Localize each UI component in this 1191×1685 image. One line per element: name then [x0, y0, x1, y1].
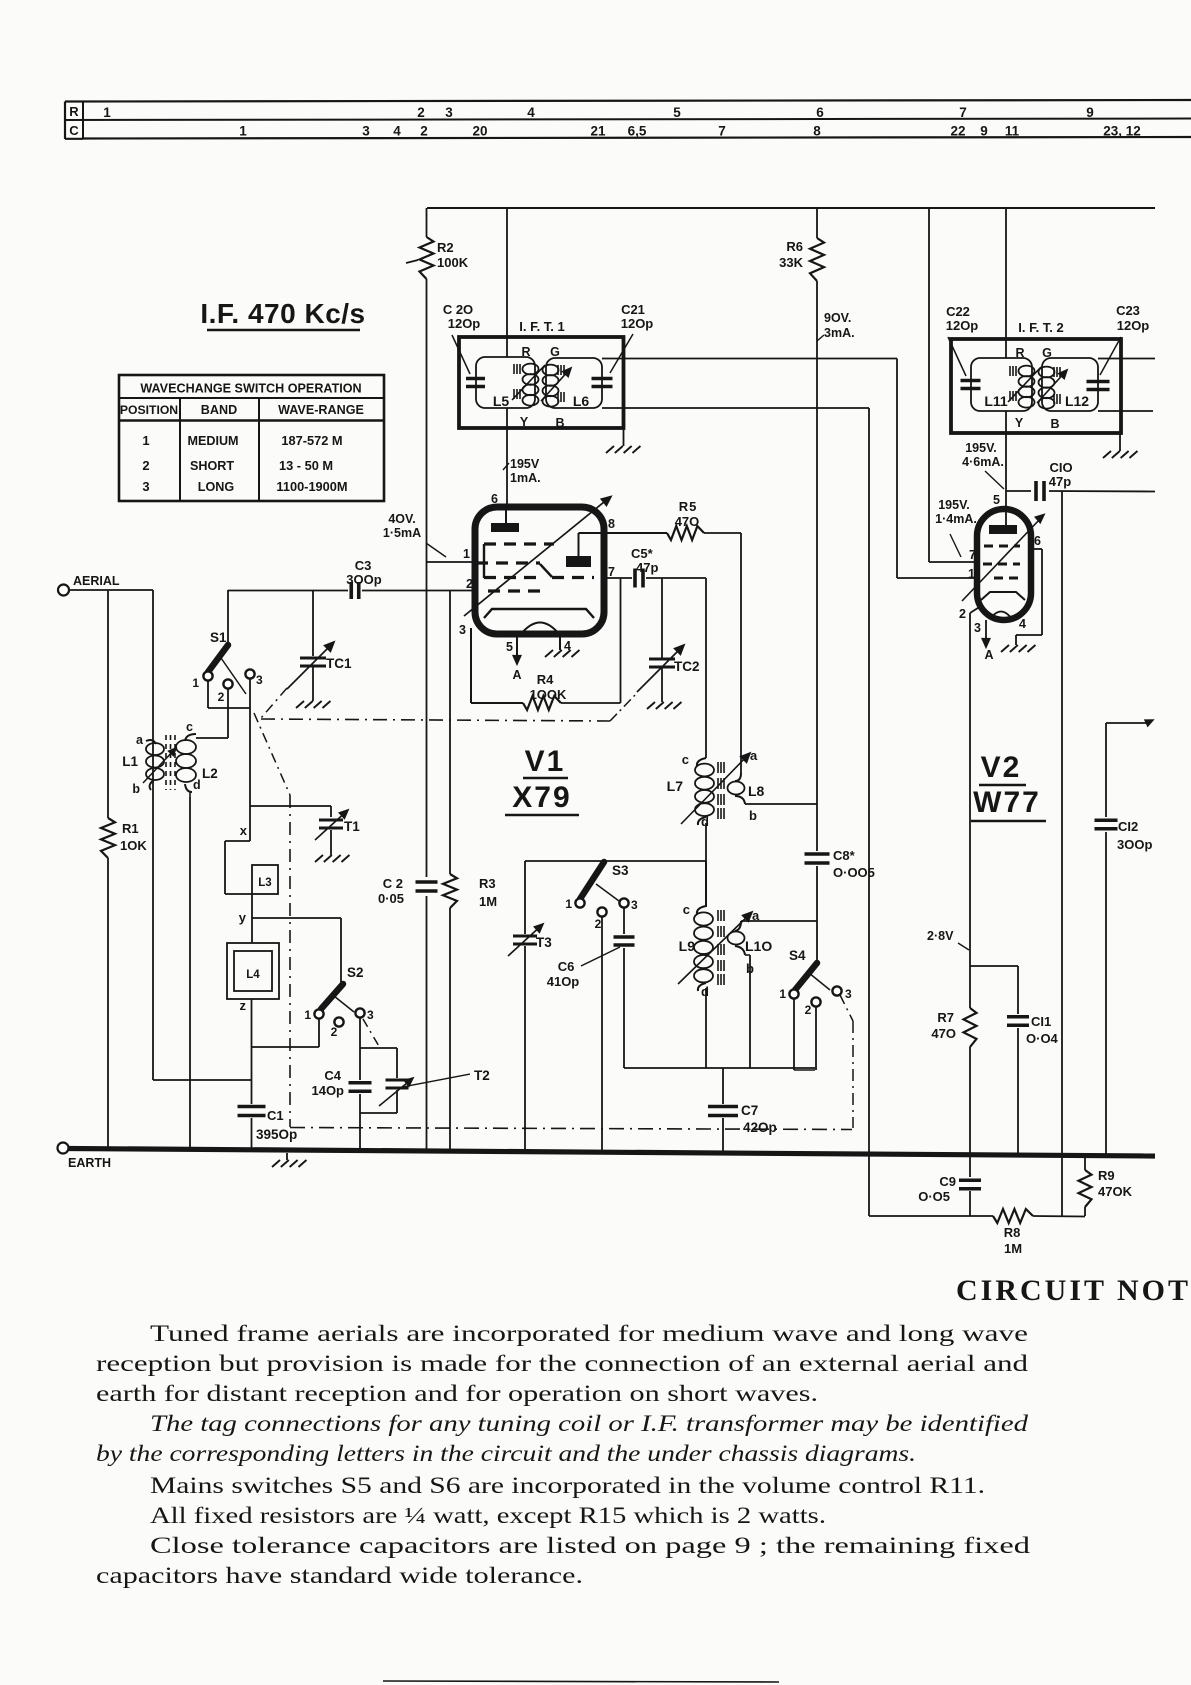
label C12 300p [1117, 819, 1152, 852]
coil L12 box [1042, 358, 1098, 411]
strip R row numbers [103, 105, 1094, 120]
svg-text:C9: C9 [939, 1174, 956, 1189]
wire R4 right leg [561, 578, 621, 703]
svg-text:47O: 47O [931, 1026, 956, 1041]
svg-text:1M: 1M [479, 894, 497, 909]
label A below V1 [512, 668, 521, 682]
svg-text:C23: C23 [1116, 303, 1140, 318]
capacitor C11 branch [970, 966, 1029, 1155]
svg-text:CI2: CI2 [1118, 819, 1138, 834]
svg-text:LONG: LONG [198, 480, 235, 494]
V1 pin5 stub with arrow [513, 634, 520, 664]
svg-text:4OV.: 4OV. [388, 512, 415, 526]
wire V2 cathode down [970, 606, 981, 1155]
svg-text:A: A [984, 648, 993, 662]
svg-text:WAVECHANGE SWITCH OPERATION: WAVECHANGE SWITCH OPERATION [140, 382, 361, 396]
coil L11 box [971, 358, 1032, 411]
T1 ground [315, 855, 349, 863]
switch S2 [314, 984, 364, 1027]
trimmer TC2 [637, 578, 684, 702]
label EARTH [68, 1156, 111, 1170]
svg-text:47O: 47O [675, 514, 700, 529]
svg-text:L7: L7 [667, 778, 684, 794]
capacitor C23 [1087, 382, 1110, 390]
svg-text:20: 20 [472, 124, 487, 139]
wire L12 to right edge top [1098, 358, 1155, 360]
label pin 6 of V1 [491, 492, 498, 506]
svg-text:9OV.: 9OV. [824, 311, 851, 325]
svg-text:C6: C6 [558, 959, 575, 974]
labels V1 pins [459, 517, 615, 654]
svg-text:a: a [750, 748, 758, 763]
wire AGC line [602, 408, 869, 1216]
svg-text:C 2O: C 2O [443, 302, 473, 317]
label R3 1M [479, 876, 497, 909]
capacitor C8 [805, 854, 830, 863]
wire R6/C8 vertical [816, 208, 818, 963]
label R4 100K [530, 672, 567, 702]
valve V1 envelope [475, 507, 604, 634]
svg-text:earth for distant reception an: earth for distant reception and for oper… [96, 1381, 818, 1407]
coil L9 [694, 861, 713, 1068]
svg-text:2: 2 [142, 458, 149, 473]
svg-text:1: 1 [463, 547, 470, 561]
page bottom edge line [383, 1681, 779, 1682]
wire R5 to L8 [704, 533, 741, 773]
capacitor C6 [614, 937, 635, 945]
wire L6 to V2 pin1 [602, 359, 977, 579]
svg-text:3: 3 [974, 621, 981, 635]
svg-text:12Op: 12Op [621, 316, 654, 331]
svg-text:5: 5 [993, 493, 1000, 507]
svg-text:S3: S3 [612, 863, 629, 878]
IFT2 ground [1103, 433, 1137, 459]
svg-text:23, 12: 23, 12 [1103, 124, 1141, 139]
IFT1 tuning arrows [512, 365, 571, 401]
svg-text:12Op: 12Op [1117, 318, 1150, 333]
label C11 0.04 [1026, 1014, 1059, 1046]
earth ground symbol [272, 1153, 306, 1168]
svg-text:4: 4 [393, 124, 401, 139]
labels L9 L10 a b c d [679, 902, 773, 999]
strip row label R [69, 104, 79, 119]
svg-text:7: 7 [718, 124, 726, 139]
svg-text:L3: L3 [258, 877, 271, 889]
svg-text:2: 2 [420, 124, 428, 139]
heading CIRCUIT NOTES [956, 1274, 1191, 1307]
svg-text:R9: R9 [1098, 1168, 1115, 1183]
label TC1 [326, 656, 352, 671]
wire grid line to V1 [228, 590, 475, 592]
wire y [252, 894, 341, 918]
svg-text:MEDIUM: MEDIUM [187, 434, 238, 448]
label L5 [493, 393, 510, 409]
svg-text:L1: L1 [122, 754, 138, 769]
svg-text:c: c [682, 752, 689, 767]
svg-text:12Op: 12Op [946, 318, 979, 333]
svg-text:G: G [550, 345, 560, 359]
wire V1 pin1 [427, 561, 476, 563]
resistor R7 [964, 1008, 977, 1047]
label 195V 4.6mA [962, 441, 1004, 489]
svg-text:POSITION: POSITION [120, 403, 178, 417]
svg-text:Close tolerance capacitors are: Close tolerance capacitors are listed on… [150, 1533, 1030, 1559]
coil L6 box [546, 358, 602, 408]
labels IFT2 R G Y B [1015, 346, 1060, 431]
svg-text:B: B [1050, 417, 1059, 431]
label 195V 1.4mA [935, 498, 977, 557]
capacitor C10 [1036, 481, 1044, 501]
wire S4 pin1 down [794, 999, 815, 1070]
svg-text:3: 3 [845, 987, 852, 1001]
L1 L2 core [166, 735, 175, 790]
svg-text:TC1: TC1 [326, 656, 352, 671]
TC1 ground [296, 701, 330, 709]
label C22 120p [946, 304, 979, 376]
svg-text:I. F. T. 2: I. F. T. 2 [1018, 320, 1064, 335]
svg-text:C: C [69, 123, 79, 138]
label C21 120p [610, 302, 653, 373]
TC2 ground [647, 702, 681, 710]
svg-text:1·4mA.: 1·4mA. [935, 512, 977, 526]
svg-text:1: 1 [565, 897, 572, 911]
label x [240, 823, 248, 838]
coil L7 [695, 758, 714, 861]
svg-text:6: 6 [816, 105, 824, 120]
notes paragraph 3 [150, 1473, 985, 1499]
label C8* 0.005 [833, 848, 875, 880]
svg-text:12Op: 12Op [448, 316, 481, 331]
svg-text:x: x [240, 823, 248, 838]
svg-text:R: R [69, 104, 79, 119]
wire L4 to C1 [251, 999, 253, 1104]
wire x step to L3 [225, 841, 252, 894]
svg-text:c: c [683, 902, 690, 917]
labels S3 1 2 3 [565, 863, 638, 931]
svg-text:d: d [701, 814, 709, 829]
svg-text:2: 2 [805, 1003, 812, 1017]
IFT1 windings [514, 364, 564, 407]
svg-text:Y: Y [1015, 416, 1024, 430]
V1 pin4 ground [545, 634, 579, 658]
svg-text:195V.: 195V. [965, 441, 997, 455]
svg-text:6: 6 [1034, 534, 1041, 548]
svg-text:SHORT: SHORT [190, 459, 234, 473]
svg-text:R1: R1 [122, 821, 139, 836]
label C3 300p [346, 558, 381, 587]
svg-text:2: 2 [466, 577, 473, 591]
label AERIAL [73, 574, 120, 588]
label L12 [1065, 393, 1089, 409]
svg-text:3: 3 [142, 479, 149, 494]
svg-text:R4: R4 [537, 672, 554, 687]
wire C6 to box bottom [624, 948, 815, 1068]
svg-text:21: 21 [590, 124, 606, 139]
wire HT top rail [427, 207, 1155, 209]
svg-text:CIO: CIO [1049, 460, 1072, 475]
label V2 W77 [971, 751, 1046, 821]
notes paragraph 5 [96, 1533, 1030, 1589]
svg-text:5: 5 [673, 105, 681, 120]
L9 core ticks [718, 910, 724, 985]
svg-text:G: G [1042, 346, 1052, 360]
label 40V 1.5mA [383, 512, 446, 557]
svg-text:C7: C7 [741, 1103, 758, 1118]
svg-text:W77: W77 [973, 786, 1041, 819]
label R8 1M [1004, 1225, 1022, 1256]
svg-text:C5*: C5* [631, 546, 654, 561]
svg-text:TC2: TC2 [674, 659, 700, 674]
svg-text:195V: 195V [510, 457, 540, 471]
coil L4 frame [227, 918, 279, 999]
svg-text:C4: C4 [324, 1068, 341, 1083]
svg-text:47OK: 47OK [1098, 1184, 1133, 1199]
svg-text:reception but provision is mad: reception but provision is made for the … [96, 1351, 1028, 1377]
svg-text:7: 7 [969, 548, 976, 562]
resistor R8 [993, 1209, 1033, 1223]
svg-text:0·05: 0·05 [378, 891, 404, 906]
svg-text:1M: 1M [1004, 1241, 1022, 1256]
S2 gang dash to T2 [363, 1019, 380, 1048]
svg-text:33K: 33K [779, 255, 803, 270]
svg-text:1: 1 [142, 433, 149, 448]
wire S2 pin1 down [252, 1019, 320, 1047]
resistor R4 [523, 696, 561, 710]
capacitor C2 [416, 882, 438, 891]
svg-text:WAVE-RANGE: WAVE-RANGE [278, 403, 364, 417]
svg-text:3OOp: 3OOp [1117, 837, 1152, 852]
coil L8 [728, 773, 818, 804]
svg-text:y: y [239, 910, 247, 925]
svg-text:The tag connections for any tu: The tag connections for any tuning coil … [150, 1411, 1028, 1437]
label A below V2 [984, 648, 993, 662]
svg-text:d: d [193, 778, 201, 792]
svg-text:2: 2 [595, 917, 602, 931]
trimmer T1 [315, 810, 348, 855]
coil L3 box [252, 865, 278, 894]
capacitor C21 [592, 379, 613, 387]
svg-text:Y: Y [520, 415, 529, 429]
label 90V 3mA [817, 311, 855, 341]
svg-text:4: 4 [527, 105, 535, 120]
svg-text:C 2: C 2 [383, 876, 403, 891]
labels V2 pins [959, 534, 1041, 635]
svg-text:I. F. T. 1: I. F. T. 1 [519, 319, 565, 334]
capacitor C12 branch [1095, 720, 1154, 1156]
svg-text:L6: L6 [573, 393, 590, 409]
wire V2 pin7 feed [929, 208, 977, 562]
svg-text:A: A [512, 668, 521, 682]
svg-text:C1: C1 [267, 1108, 284, 1123]
label C5* 47p [631, 546, 658, 575]
label C7 420p [741, 1103, 777, 1135]
V2 pin3 stub with arrow [982, 620, 989, 647]
label T1 [344, 819, 360, 834]
gang link dash-dot S1 to S2 [254, 713, 290, 1127]
wire R2/C2 vertical [426, 208, 428, 1149]
svg-text:1OK: 1OK [120, 838, 147, 853]
transformer IFT1 dashed box [459, 337, 624, 428]
svg-text:V1: V1 [525, 745, 566, 778]
svg-text:4·6mA.: 4·6mA. [962, 455, 1004, 469]
svg-text:C21: C21 [621, 302, 645, 317]
coil L2 [176, 734, 196, 1149]
svg-text:CIRCUIT NOT: CIRCUIT NOT [956, 1274, 1191, 1307]
V2 pin4 ground [1001, 645, 1035, 653]
valve V2 envelope [977, 509, 1031, 620]
svg-text:42Op: 42Op [743, 1120, 777, 1135]
svg-text:2·8V: 2·8V [927, 929, 954, 943]
svg-text:1: 1 [779, 987, 786, 1001]
svg-text:1mA.: 1mA. [510, 471, 541, 485]
switch S1 [203, 645, 254, 694]
svg-text:1: 1 [192, 676, 199, 690]
svg-text:9: 9 [980, 124, 988, 139]
coil L1 [146, 740, 164, 790]
label I.F.T.2 [1018, 320, 1064, 335]
label R5 470 [675, 499, 700, 529]
label C23 120p [1100, 303, 1149, 375]
svg-text:22: 22 [950, 124, 965, 139]
strip C row numbers [239, 124, 1141, 139]
wire T1 feed [250, 806, 331, 817]
labels S1 1 2 3 [192, 630, 263, 704]
svg-text:BAND: BAND [201, 403, 237, 417]
svg-text:R8: R8 [1004, 1225, 1021, 1240]
resistor R2 [406, 237, 434, 279]
svg-text:I.F. 470 Kc/s: I.F. 470 Kc/s [200, 298, 365, 329]
svg-text:S2: S2 [347, 965, 364, 980]
switch S4 [789, 963, 841, 1007]
svg-text:3: 3 [367, 1008, 374, 1022]
svg-text:13 - 50 M: 13 - 50 M [279, 458, 333, 473]
V1 tuning arrow [464, 497, 611, 617]
notes paragraph 1 [96, 1321, 1028, 1407]
svg-text:4: 4 [1019, 617, 1026, 631]
svg-text:R3: R3 [479, 876, 496, 891]
label C4 140p [311, 1068, 344, 1098]
svg-text:C22: C22 [946, 304, 970, 319]
wire bottom AGC rail [869, 1215, 1085, 1218]
label R1 10K [120, 821, 147, 853]
gang link dash-dot bottom rail [290, 1128, 852, 1130]
svg-text:L9: L9 [679, 938, 696, 954]
svg-text:47p: 47p [1049, 474, 1071, 489]
notes paragraph 2 italic [96, 1411, 1028, 1467]
earth terminal [58, 1143, 69, 1154]
svg-text:S1: S1 [210, 630, 227, 645]
capacitor C7 [708, 1068, 738, 1151]
svg-text:1: 1 [968, 567, 975, 581]
label C1 3950p [256, 1108, 297, 1142]
svg-text:a: a [752, 908, 760, 923]
svg-text:3: 3 [362, 124, 370, 139]
notes paragraph 4 [150, 1503, 826, 1529]
svg-text:T2: T2 [474, 1068, 490, 1083]
svg-text:11: 11 [1005, 124, 1020, 139]
wire S1 pin1 down [208, 681, 250, 708]
svg-text:1·5mA: 1·5mA [383, 526, 421, 540]
svg-text:41Op: 41Op [547, 974, 580, 989]
transformer IFT2 dashed box [951, 339, 1121, 433]
svg-text:c: c [186, 720, 193, 734]
heading I.F. 470 Kc/s [200, 298, 365, 330]
capacitor C3 [351, 582, 359, 599]
label z [240, 998, 247, 1013]
wire S3 pin2 to earth [601, 917, 603, 1150]
svg-text:R6: R6 [786, 239, 803, 254]
svg-text:AERIAL: AERIAL [73, 574, 120, 588]
resistor R3 branch [443, 591, 457, 1151]
svg-text:3: 3 [459, 623, 466, 637]
wire S2 pin3 to C4 [359, 1018, 361, 1080]
svg-text:R: R [1015, 346, 1024, 360]
svg-text:187-572 M: 187-572 M [281, 433, 342, 448]
svg-text:8: 8 [608, 517, 615, 531]
V1 cathode [484, 609, 594, 634]
svg-text:1OOK: 1OOK [530, 687, 567, 702]
svg-text:All fixed resistors are ¼ watt: All fixed resistors are ¼ watt, except R… [150, 1503, 826, 1529]
svg-text:100K: 100K [437, 255, 469, 270]
svg-text:Mains switches S5 and S6 are i: Mains switches S5 and S6 are incorporate… [150, 1473, 985, 1499]
svg-text:L2: L2 [202, 766, 218, 781]
wire S4 pin2 down [815, 1007, 817, 1070]
L7 core ticks [718, 762, 724, 819]
label R9 470K [1098, 1168, 1133, 1199]
svg-text:b: b [132, 782, 140, 796]
svg-text:1: 1 [239, 124, 247, 139]
svg-text:L5: L5 [493, 393, 510, 409]
component location strip border [65, 100, 1191, 139]
strip row label C [69, 123, 79, 138]
wire V1 pin7 [604, 578, 706, 758]
capacitor C5 [635, 569, 643, 588]
svg-text:395Op: 395Op [256, 1127, 297, 1142]
label T3 [536, 935, 552, 950]
capacitor C9 [959, 1155, 981, 1216]
V1 grids dashed [476, 544, 594, 591]
capacitor C1 [238, 1107, 266, 1150]
wire aerial [69, 590, 252, 1080]
label 2.8V [927, 929, 969, 950]
svg-text:3OOp: 3OOp [346, 572, 381, 587]
V2 grids dashed [983, 546, 1020, 578]
wire R4 left leg [471, 628, 523, 703]
labels S2 1 2 3 [304, 965, 374, 1039]
svg-text:2: 2 [331, 1025, 338, 1039]
wire IFT2 feed [1005, 208, 1007, 509]
V2 cathode [981, 592, 1025, 619]
resistor R1 branch [101, 590, 115, 1149]
wire V1 pin8 to R5 [579, 532, 668, 534]
svg-text:1: 1 [103, 105, 111, 120]
labels IFT1 R G Y B [520, 345, 565, 430]
IFT2 windings [1010, 366, 1060, 409]
svg-text:Tuned frame aerials are incorp: Tuned frame aerials are incorporated for… [150, 1321, 1028, 1347]
coil L5 box [476, 357, 535, 408]
label TC2 [674, 659, 700, 674]
svg-text:3mA.: 3mA. [824, 326, 855, 340]
L9 L10 tuning arrow [678, 912, 752, 984]
label R6 33K [779, 239, 803, 270]
svg-text:C3: C3 [355, 558, 372, 573]
V1 anode bar [491, 510, 519, 532]
svg-text:47p: 47p [636, 560, 658, 575]
svg-text:X79: X79 [512, 781, 571, 814]
svg-text:CI1: CI1 [1031, 1014, 1051, 1029]
svg-text:b: b [746, 961, 754, 976]
trimmer TC1 [287, 591, 334, 701]
